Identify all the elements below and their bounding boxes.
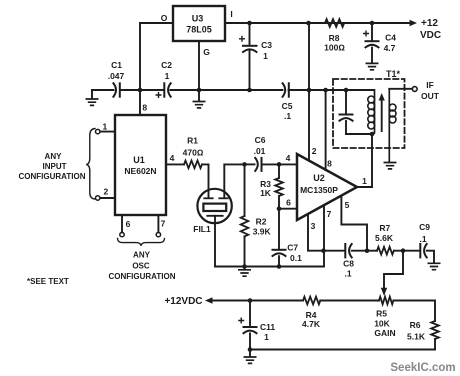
svg-text:4: 4: [286, 153, 291, 163]
svg-text:ANY: ANY: [45, 152, 63, 161]
svg-text:C1: C1: [111, 60, 122, 70]
svg-text:4.7: 4.7: [384, 43, 396, 53]
svg-text:FIL1: FIL1: [193, 224, 211, 234]
svg-text:.047: .047: [108, 71, 125, 81]
svg-text:0.1: 0.1: [290, 253, 302, 263]
svg-text:1: 1: [103, 122, 108, 132]
svg-text:R6: R6: [410, 320, 421, 330]
svg-text:C2: C2: [161, 60, 172, 70]
svg-text:C11: C11: [260, 322, 275, 332]
svg-text:1: 1: [362, 176, 367, 186]
svg-text:IF: IF: [426, 80, 434, 90]
svg-text:8: 8: [327, 159, 332, 169]
svg-text:+12VDC: +12VDC: [164, 296, 202, 307]
svg-text:78L05: 78L05: [186, 25, 212, 35]
svg-text:C9: C9: [419, 222, 430, 232]
svg-text:VDC: VDC: [420, 30, 441, 41]
svg-text:U3: U3: [192, 14, 204, 24]
svg-text:.01: .01: [254, 146, 266, 156]
svg-text:G: G: [203, 47, 210, 57]
svg-text:R7: R7: [379, 223, 390, 233]
svg-text:C4: C4: [385, 33, 396, 43]
svg-text:5.6K: 5.6K: [375, 233, 394, 243]
svg-text:.1: .1: [284, 111, 291, 121]
svg-text:7: 7: [327, 209, 332, 219]
svg-text:1K: 1K: [260, 188, 272, 198]
svg-text:O: O: [161, 13, 168, 23]
svg-text:.1: .1: [419, 234, 426, 244]
svg-text:R2: R2: [256, 217, 267, 227]
svg-text:CONFIGURATION: CONFIGURATION: [109, 272, 176, 281]
svg-text:CONFIGURATION: CONFIGURATION: [19, 172, 86, 181]
svg-text:T1*: T1*: [386, 69, 401, 79]
svg-text:470Ω: 470Ω: [183, 148, 204, 158]
svg-text:ANY: ANY: [133, 251, 151, 260]
svg-text:U1: U1: [133, 155, 145, 165]
svg-text:R8: R8: [329, 33, 340, 43]
svg-text:C7: C7: [287, 243, 298, 253]
svg-text:SeekIC.com: SeekIC.com: [390, 362, 455, 374]
svg-text:I: I: [230, 9, 232, 19]
svg-text:4: 4: [170, 153, 175, 163]
svg-text:C3: C3: [261, 40, 272, 50]
svg-text:1: 1: [165, 71, 170, 81]
svg-text:4.7K: 4.7K: [302, 319, 321, 329]
svg-text:6: 6: [126, 219, 131, 229]
svg-text:5.1K: 5.1K: [407, 332, 426, 342]
svg-text:3: 3: [311, 221, 316, 231]
svg-text:NE602N: NE602N: [124, 166, 156, 176]
svg-text:C6: C6: [255, 135, 266, 145]
svg-text:OUT: OUT: [421, 91, 440, 101]
svg-text:1: 1: [264, 332, 269, 342]
svg-text:7: 7: [161, 219, 166, 229]
svg-text:R5: R5: [376, 309, 387, 319]
svg-text:6: 6: [286, 198, 291, 208]
svg-text:1: 1: [263, 51, 268, 61]
svg-text:10K: 10K: [374, 319, 390, 329]
svg-text:8: 8: [142, 103, 147, 113]
svg-text:2: 2: [104, 187, 109, 197]
svg-text:.1: .1: [344, 269, 351, 279]
svg-text:U2: U2: [313, 173, 325, 183]
svg-text:100Ω: 100Ω: [324, 43, 345, 53]
svg-text:C8: C8: [343, 259, 354, 269]
svg-text:GAIN: GAIN: [374, 328, 395, 338]
svg-text:5: 5: [345, 200, 350, 210]
svg-text:OSC: OSC: [132, 262, 150, 271]
svg-text:*SEE TEXT: *SEE TEXT: [27, 277, 69, 286]
svg-text:INPUT: INPUT: [43, 162, 67, 171]
svg-text:+12: +12: [421, 18, 438, 29]
svg-text:3.9K: 3.9K: [253, 227, 272, 237]
svg-text:C5: C5: [282, 101, 293, 111]
svg-text:MC1350P: MC1350P: [300, 185, 338, 195]
svg-text:R1: R1: [187, 136, 198, 146]
svg-text:2: 2: [312, 146, 317, 156]
